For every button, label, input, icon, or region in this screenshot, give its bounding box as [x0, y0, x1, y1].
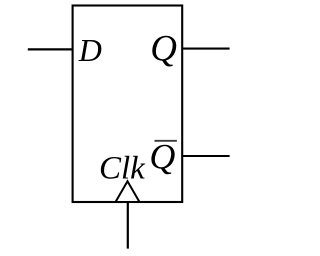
svg-text:Q: Q	[149, 137, 175, 177]
wire Q-bar output	[182, 155, 229, 157]
overline of Q-bar	[155, 140, 177, 142]
svg-text:Clk: Clk	[99, 151, 146, 187]
clock edge triangle	[116, 181, 140, 202]
flip-flop body U1	[73, 6, 183, 203]
wire D input	[28, 48, 73, 50]
wire Q output	[182, 48, 229, 50]
svg-text:D: D	[78, 32, 102, 68]
wire Clk input	[127, 202, 129, 249]
svg-text:Q: Q	[150, 29, 177, 70]
